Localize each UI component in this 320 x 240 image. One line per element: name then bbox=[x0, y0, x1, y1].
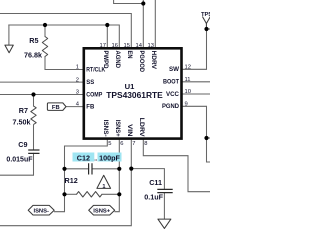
svg-text:2: 2 bbox=[76, 77, 79, 83]
svg-text:12: 12 bbox=[185, 64, 191, 70]
svg-text:10: 10 bbox=[185, 89, 191, 95]
svg-text:100pF: 100pF bbox=[99, 153, 120, 162]
IC U1 TPS43061RTE body bbox=[84, 48, 182, 138]
svg-text:PWPD: PWPD bbox=[102, 51, 109, 69]
svg-text:76.8k: 76.8k bbox=[24, 51, 42, 60]
junction node R12 left bbox=[62, 192, 66, 196]
wire R7 bottom to C9 bbox=[33, 125, 35, 150]
svg-text:ISNS-: ISNS- bbox=[102, 120, 109, 137]
junction node test point SW bbox=[204, 27, 208, 31]
svg-text:C11: C11 bbox=[149, 178, 162, 187]
svg-text:11: 11 bbox=[185, 77, 191, 83]
svg-text:17: 17 bbox=[100, 43, 106, 49]
wire C11 bottom to ground bbox=[163, 193, 165, 219]
svg-text:8: 8 bbox=[144, 141, 147, 147]
capacitor C12 plates bbox=[89, 163, 92, 174]
svg-text:HDRV: HDRV bbox=[150, 51, 157, 70]
svg-text:7.50k: 7.50k bbox=[13, 118, 31, 127]
svg-text:ISNS-: ISNS- bbox=[33, 208, 49, 214]
wire AGND net from ground to pin 16 bbox=[9, 25, 119, 48]
svg-text:3: 3 bbox=[76, 90, 79, 96]
wire C9 bottom to left edge bbox=[0, 153, 34, 175]
junction node pin 17 bbox=[105, 23, 109, 27]
net flag ISNS- bbox=[28, 205, 54, 215]
svg-text:SW: SW bbox=[169, 66, 179, 73]
wire EN net from left edge to pin 15 bbox=[0, 14, 131, 48]
wire R7 top stem bbox=[33, 95, 35, 107]
svg-text:R7: R7 bbox=[19, 106, 28, 115]
svg-text:14: 14 bbox=[136, 43, 143, 49]
net flag ISNS+ bbox=[89, 205, 115, 215]
svg-text:R5: R5 bbox=[29, 36, 38, 45]
svg-text:0.1uF: 0.1uF bbox=[144, 193, 163, 202]
wire pin 8 LDRV staircase to right edge bbox=[143, 140, 210, 192]
junction node C12 left bbox=[62, 167, 66, 171]
wire C12 left segment bbox=[65, 168, 89, 170]
svg-text:1: 1 bbox=[102, 184, 105, 190]
svg-text:COMP: COMP bbox=[86, 91, 102, 98]
svg-text:VCC: VCC bbox=[166, 91, 180, 98]
test point TP5 bbox=[202, 17, 210, 30]
junction node PGND right bbox=[204, 136, 208, 140]
net flag FB bbox=[47, 103, 66, 111]
wire VIN branch to C11 bbox=[131, 169, 164, 189]
svg-text:6: 6 bbox=[120, 141, 123, 147]
svg-text:16: 16 bbox=[112, 43, 118, 49]
variant marker triangle 1 bbox=[97, 175, 111, 188]
svg-text:ISNS+: ISNS+ bbox=[114, 120, 121, 137]
svg-text:PGOOD: PGOOD bbox=[138, 51, 145, 73]
resistor R12 bbox=[77, 192, 102, 197]
wire VCC net pin 10 to right edge bbox=[182, 93, 211, 95]
svg-text:FB: FB bbox=[52, 105, 60, 111]
wire R5 top stem bbox=[44, 25, 46, 37]
svg-text:R12: R12 bbox=[65, 176, 78, 185]
svg-text:9: 9 bbox=[185, 101, 188, 107]
svg-text:VIN: VIN bbox=[126, 124, 133, 137]
wire PGOOD net from top edge to pin 14 bbox=[114, 0, 144, 48]
svg-text:0.015uF: 0.015uF bbox=[6, 157, 33, 164]
capacitor C11 bbox=[157, 189, 172, 192]
svg-text:13: 13 bbox=[148, 43, 154, 49]
resistor R7 bbox=[31, 106, 36, 124]
wire PGND net pin 9 down to right edge bbox=[182, 106, 211, 162]
svg-text:U1: U1 bbox=[125, 82, 135, 91]
wire ground stem top-left bbox=[8, 25, 10, 45]
resistor R5 bbox=[42, 37, 47, 57]
svg-text:TP5: TP5 bbox=[201, 12, 210, 18]
ground symbol under C11 bbox=[158, 219, 171, 228]
wire SS net from left edge to pin 2 bbox=[0, 81, 83, 83]
svg-text:BOOT: BOOT bbox=[163, 79, 179, 86]
wire pin 7 VIN down to bottom bus to left edge bbox=[0, 140, 131, 226]
junction node pin 14 bbox=[141, 1, 145, 5]
svg-text:C12: C12 bbox=[77, 153, 90, 162]
wire PGND stub to right edge bbox=[207, 137, 211, 139]
wire pin 5 ISNS- down-left-down to ISNS- flag bbox=[55, 140, 108, 212]
wire C12 right segment bbox=[92, 168, 119, 170]
svg-text:ISNS+: ISNS+ bbox=[93, 208, 111, 214]
svg-text:TPS43061RTE: TPS43061RTE bbox=[106, 91, 163, 100]
svg-text:7: 7 bbox=[132, 141, 135, 147]
junction node C12 right bbox=[117, 167, 121, 171]
svg-text:FB: FB bbox=[86, 104, 95, 111]
svg-text:15: 15 bbox=[124, 43, 130, 49]
svg-text:SS: SS bbox=[86, 79, 94, 86]
svg-text:1: 1 bbox=[76, 65, 79, 71]
junction node VIN C11 branch bbox=[129, 167, 133, 171]
wire test point stub to right edge bbox=[207, 28, 211, 30]
wire pin 6 ISNS+ down to ISNS+ flag bbox=[115, 140, 119, 212]
svg-text:LDRV: LDRV bbox=[138, 118, 145, 138]
capacitor C9 bbox=[28, 150, 39, 153]
svg-text:5: 5 bbox=[108, 141, 111, 147]
wire FB flag to pin 4 bbox=[66, 106, 83, 108]
junction node R7 top COMP bbox=[31, 92, 35, 96]
wire R12 right segment bbox=[102, 193, 119, 195]
wire R12 left segment bbox=[65, 193, 77, 195]
wire R5 bottom to pin 1 RT/CLK bbox=[45, 57, 83, 70]
wire BOOT net pin 11 to right edge bbox=[182, 81, 211, 83]
wire SW net pin 12 up to test point bbox=[182, 29, 207, 69]
wire COMP net from left edge to pin 3 bbox=[0, 94, 83, 96]
svg-text:AGND: AGND bbox=[114, 51, 121, 69]
junction node R5 top bbox=[43, 23, 47, 27]
svg-text:C9: C9 bbox=[18, 140, 27, 149]
svg-text:EN: EN bbox=[126, 51, 133, 59]
junction node R12 right bbox=[117, 192, 121, 196]
capacitor C12 highlight bbox=[73, 153, 95, 162]
svg-text:PGND: PGND bbox=[162, 103, 179, 110]
ground symbol top-left bbox=[5, 45, 13, 53]
wire HDRV net pin 13 to top edge bbox=[154, 0, 156, 48]
wire pin 17 stub bbox=[106, 25, 108, 48]
